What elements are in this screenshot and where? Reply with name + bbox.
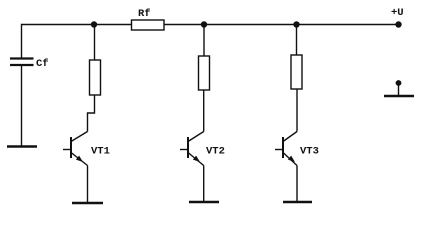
node: junction dot branch VT3 — [293, 21, 299, 27]
wire: VT2 emitter to ground — [203, 166, 205, 203]
transistor VT1 — [63, 132, 88, 166]
wire: rail to resistor R3 — [296, 25, 298, 56]
wire: terminal stem — [398, 85, 400, 96]
capacitor Cf — [10, 59, 34, 66]
resistor (collector load of VT1) — [90, 60, 101, 95]
wire: R2 to VT2 collector — [203, 90, 205, 132]
wire: top rail right segment (Rf to +U) — [164, 24, 399, 26]
svg-text:Rf: Rf — [138, 8, 151, 20]
wire: top rail left segment (corner to Rf) — [22, 25, 132, 58]
wire: rail to resistor R2 — [203, 25, 205, 57]
node: output terminal dot — [396, 80, 402, 86]
transistor VT3 — [275, 132, 297, 166]
wire: rail to resistor R1 — [94, 25, 96, 61]
svg-text:VT3: VT3 — [300, 146, 319, 158]
node: +U terminal dot — [395, 21, 401, 27]
ground: earth bar at output terminal — [384, 95, 414, 97]
transistor VT2 — [180, 132, 204, 166]
svg-text:VT1: VT1 — [91, 146, 110, 158]
wire: VT3 emitter to ground — [296, 166, 298, 203]
wire: R3 to VT3 collector — [296, 89, 298, 132]
wire: VT1 emitter to ground — [87, 166, 89, 204]
svg-text:VT2: VT2 — [206, 146, 225, 158]
resistor (collector load of VT2) — [199, 56, 210, 90]
svg-text:+U: +U — [391, 7, 404, 19]
ground: earth bar under VT3 — [283, 201, 312, 203]
wire: R1 to VT1 collector (jogged) — [88, 95, 95, 132]
svg-text:Cf: Cf — [36, 58, 49, 70]
ground: earth bar under Cf — [7, 145, 37, 147]
wire: Cf bottom to ground — [21, 66, 23, 146]
ground: earth bar under VT1 — [72, 202, 103, 204]
node: junction dot branch VT2 — [201, 21, 207, 27]
resistor (collector load of VT3) — [291, 55, 302, 89]
node: junction dot branch VT1 — [91, 21, 97, 27]
resistor Rf — [132, 20, 165, 30]
ground: earth bar under VT2 — [189, 201, 219, 203]
